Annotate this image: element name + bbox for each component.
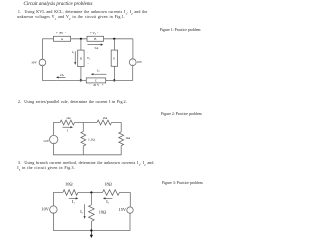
wire: fig1 D down to bottom rail (80, 67, 82, 81)
voltage label - 20V + (below C) (89, 83, 104, 87)
svg-text:2Ω: 2Ω (103, 116, 108, 120)
wire: fig2 left rail lower and bottom rail left (54, 144, 84, 155)
problem 3 text line 2 (17, 166, 75, 173)
current arrow 5A (below B) (87, 44, 103, 46)
value label 10 ohm (top left) (65, 182, 73, 187)
figure 2 caption (161, 113, 202, 117)
current arrow 2A (bottom left) (56, 76, 66, 78)
voltage source 15V (circle) (127, 207, 133, 214)
svg-text:4Ω: 4Ω (126, 136, 131, 140)
node junction 4 (bottom, under E) (113, 79, 115, 81)
svg-text:10V: 10V (137, 60, 143, 64)
resistor B (87, 36, 104, 41)
wire: fig1 node2 down to resistor E (113, 39, 115, 50)
problem 2 text (18, 100, 127, 104)
wire: fig3 middle branch upper (90, 193, 92, 205)
value label 4 ohm (126, 136, 131, 140)
current arrow I2 fig3 (103, 197, 112, 199)
voltage source 10V fig3 (circle) (50, 206, 57, 214)
svg-text:1.2Ω: 1.2Ω (88, 138, 95, 142)
current label I2 (97, 69, 100, 74)
resistor 1 ohm (fig2 top left zigzag) (60, 120, 75, 125)
wire: fig3 left rail upper (53, 193, 62, 206)
resistor 4 ohm (fig2 right vertical zigzag) (119, 132, 124, 146)
node junction bottom (fig3) (90, 229, 92, 231)
svg-text:I3: I3 (80, 209, 83, 215)
svg-text:I1: I1 (72, 50, 75, 55)
value label 15V (119, 207, 127, 212)
voltage source 30V (circle) (39, 59, 46, 66)
figure 1 caption (160, 29, 201, 33)
value label 5A (95, 46, 100, 50)
wire: fig2 middle branch upper segment (82, 123, 84, 132)
wire: fig3 left rail lower and bottom rail left (53, 213, 91, 230)
current arrow I3 fig3 (84, 204, 86, 219)
svg-text:V1: V1 (87, 56, 91, 61)
svg-text:+ V2 −: + V2 − (90, 31, 99, 36)
resistor 2 ohm (fig2 top right zigzag) (97, 120, 112, 125)
resistor 10 ohm (fig3 middle vertical zigzag) (89, 205, 95, 222)
node junction 1 (top) (80, 38, 82, 40)
svg-text:I2: I2 (106, 199, 109, 205)
svg-text:10Ω: 10Ω (99, 210, 107, 215)
svg-text:30V: 30V (31, 60, 37, 64)
value label 10 ohm (middle) (99, 210, 107, 215)
wire: fig1 left rail top segment (41, 39, 43, 59)
svg-text:5A: 5A (95, 46, 100, 50)
voltage source 10V (circle) (129, 59, 136, 67)
value label 1 ohm (66, 116, 71, 120)
wire: fig1 node1 down to resistor D (80, 39, 82, 50)
wire: fig3 middle branch lower (90, 221, 92, 230)
current label I1 (72, 50, 75, 55)
wire: fig2 middle branch lower segment (82, 146, 84, 155)
svg-text:E: E (113, 57, 115, 61)
value label 2 ohm (103, 116, 108, 120)
wire: fig1 top rail, source to resistor A (42, 38, 53, 40)
problem 3 text line 1 (18, 161, 154, 168)
svg-text:12V: 12V (43, 139, 50, 143)
problem 1 text line 2 (17, 15, 125, 22)
svg-text:2A: 2A (60, 73, 65, 77)
svg-text:− 20 V +: − 20 V + (89, 83, 104, 87)
svg-text:15V: 15V (119, 207, 127, 212)
current arrow I (below 1 ohm) (62, 126, 73, 128)
resistor 18 ohm (fig3 top right zigzag) (103, 190, 120, 196)
current arrow I2 (above C) (91, 73, 107, 75)
svg-text:I1: I1 (72, 199, 75, 205)
figure 3 caption (162, 182, 203, 186)
value label 10V fig3 (41, 207, 49, 212)
svg-text:I2: I2 (97, 69, 100, 74)
resistor C (86, 78, 105, 83)
svg-text:+: + (87, 51, 89, 54)
value label 12V (43, 139, 50, 143)
wire: fig1 bottom rail, C to node 4 (106, 79, 115, 81)
wire: fig1 top rail, B to right corner (104, 38, 133, 40)
resistor 1.2 ohm (fig2 middle vertical zigzag) (81, 131, 86, 146)
wire: fig2 right rail lower and bottom rail right (83, 146, 121, 155)
resistor 10 ohm (fig3 top left zigzag) (63, 190, 78, 196)
svg-text:10V: 10V (41, 207, 49, 212)
voltage label V1 with + - (right of D) (87, 51, 91, 66)
current label I2 fig3 (106, 199, 109, 205)
svg-text:1Ω: 1Ω (66, 116, 71, 120)
current label I1 fig3 (72, 199, 75, 205)
node junction 2 (top) (113, 38, 115, 40)
wire: fig1 bottom rail, left corner to resistor C (56, 79, 86, 81)
svg-text:+ 8V −: + 8V − (56, 31, 67, 35)
svg-text:−: − (53, 140, 55, 144)
svg-text:10Ω: 10Ω (65, 182, 73, 187)
wire: fig2 left rail upper (54, 123, 61, 136)
resistor D (78, 50, 84, 67)
voltage label + 8V - (across A) (56, 31, 67, 35)
voltage source 12V (circle) (50, 135, 58, 144)
value label 1.2 ohm (88, 138, 95, 142)
node junction 3 (bottom, under D) (80, 79, 82, 81)
wire: fig3 right rail lower and bottom rail right (91, 213, 130, 230)
voltage label + V2 - (across B) (90, 31, 99, 36)
current arrow I1 fig3 (69, 197, 79, 199)
value label 2A (60, 73, 65, 77)
wire: fig3 top rail right and right rail upper (119, 193, 130, 207)
resistor A (53, 36, 70, 41)
wire: fig3 top rail middle segment (78, 192, 103, 194)
svg-text:I: I (67, 129, 69, 133)
document title (24, 2, 93, 7)
wire: fig2 top rail, 2 ohm to right corner, down (112, 123, 122, 132)
wire: fig1 right rail top segment (132, 39, 134, 59)
svg-text:18Ω: 18Ω (104, 182, 112, 187)
wire: fig1 E down to bottom rail (113, 66, 115, 80)
current label I (67, 129, 69, 133)
value label 18 ohm (104, 182, 112, 187)
wire: fig1 left rail bottom segment (42, 66, 56, 81)
current label I3 fig3 (80, 209, 83, 215)
wire: fig2 top rail, 1 ohm to 2 ohm (75, 122, 98, 124)
svg-text:−: − (87, 62, 89, 66)
svg-text:B: B (94, 37, 96, 41)
node junction top (fig3) (90, 191, 92, 193)
value label 10V (137, 60, 143, 64)
resistor E (111, 50, 117, 66)
current arrow I1 (left of D) (74, 51, 76, 65)
problem 1 text line 1 (18, 10, 148, 17)
wire: fig1 right rail bottom segment (114, 66, 132, 81)
value label 30V (31, 60, 37, 64)
ground reference arrow (below bottom node) (90, 231, 93, 239)
wire: fig1 top rail, A to node 1 (71, 38, 87, 40)
